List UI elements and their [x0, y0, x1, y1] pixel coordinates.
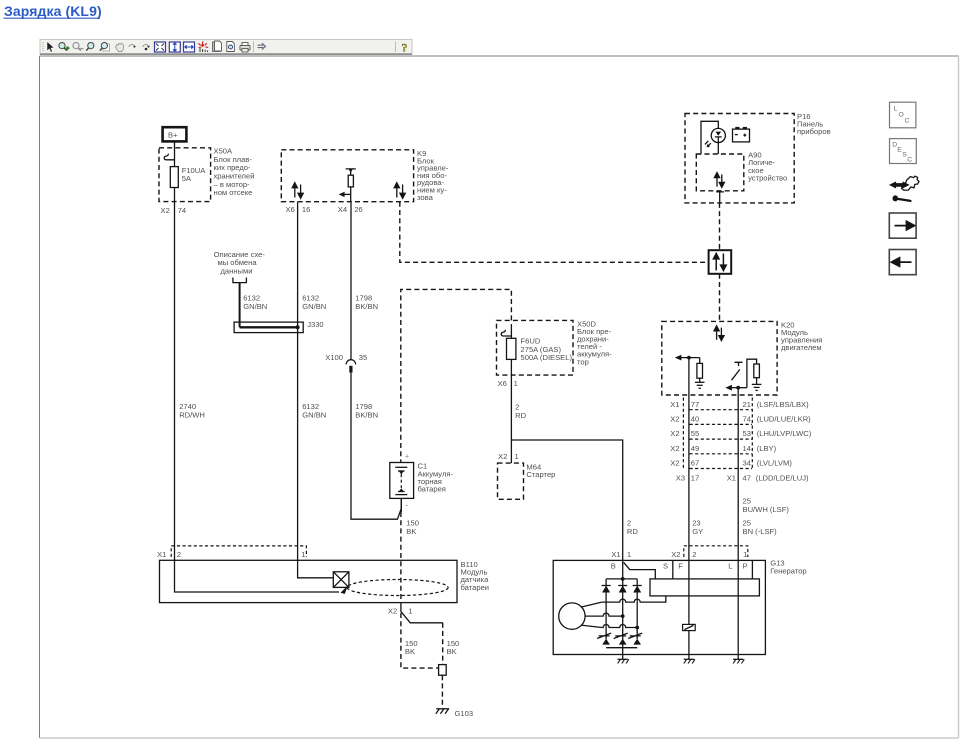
toolbar icon highlight sparkle: [198, 42, 208, 53]
svg-text:RD: RD: [515, 411, 526, 420]
stator circle: [559, 603, 585, 629]
svg-text:X1: X1: [611, 550, 620, 559]
arrows in A90: [714, 173, 724, 188]
svg-text:RD: RD: [627, 527, 638, 536]
node on top bus: [621, 577, 625, 581]
svg-text:(LUD/LUE/LKR): (LUD/LUE/LKR): [757, 415, 811, 424]
svg-text:F: F: [678, 562, 683, 571]
label 150 BK left: [405, 639, 418, 656]
dashed wire data box to K20: [719, 274, 721, 322]
svg-text:55: 55: [691, 429, 699, 438]
K20 pin labels left column: [670, 400, 736, 483]
svg-text:X1: X1: [670, 400, 679, 409]
svg-text:77: 77: [691, 400, 699, 409]
wire 150 BK right branch to inline connector: [401, 603, 443, 665]
svg-text:тор: тор: [577, 357, 589, 366]
K20 pin ladder dashed rows: [683, 398, 752, 469]
wire 150 BK left branch: [401, 613, 439, 668]
svg-text:X2: X2: [670, 459, 679, 468]
K20 pin labels right column: [743, 400, 812, 483]
connector X2 of generator dashed bracket: [684, 546, 748, 557]
shunt box with X: [333, 572, 349, 588]
svg-text:21: 21: [743, 400, 751, 409]
label K20: [781, 320, 822, 352]
B+ terminal box: [163, 127, 187, 141]
svg-text:GN/BN: GN/BN: [302, 410, 326, 419]
svg-text:1: 1: [743, 550, 747, 559]
battery icon in P16: [733, 127, 750, 142]
wire 6132 GN/BN from K9 to B110: [297, 202, 299, 561]
arrows in K20 top: [714, 326, 724, 341]
svg-text:500A (DIESEL): 500A (DIESEL): [521, 353, 573, 362]
wire bracket to splice J330: [239, 283, 241, 328]
svg-text:(LDD/LDE/LUJ): (LDD/LDE/LUJ): [756, 473, 809, 482]
label 25 BU/WH (LSF): [743, 497, 790, 514]
toolbar icon fit window: [155, 42, 166, 52]
svg-text:BK: BK: [406, 527, 416, 536]
svg-text:(LVL/LVM): (LVL/LVM): [757, 459, 793, 468]
svg-text:(LHU/LVP/LWC): (LHU/LVP/LWC): [757, 429, 812, 438]
wire K20 pin 21 to generator LP (25): [737, 388, 739, 561]
svg-text:X6: X6: [286, 205, 295, 214]
wire 2740 RD/WH: [174, 202, 176, 561]
toolbar icon fit width: [184, 42, 195, 52]
label 2740 RD/WH: [179, 402, 205, 419]
svg-text:X1: X1: [157, 550, 166, 559]
svg-text:2: 2: [177, 550, 181, 559]
svg-text:49: 49: [691, 444, 699, 453]
svg-text:GY: GY: [692, 527, 703, 536]
svg-text:16: 16: [302, 205, 310, 214]
toolbar icon zoom in: [59, 43, 70, 51]
svg-text:53: 53: [743, 429, 751, 438]
wire F through regulator to field coil: [688, 560, 690, 659]
title link Зарядка (KL9): [4, 3, 102, 19]
data bus description label: [214, 250, 266, 276]
bottom diode left: [602, 639, 610, 645]
svg-text:BU/WH (LSF): BU/WH (LSF): [743, 505, 790, 514]
pins X2 74 of X50A: [161, 206, 187, 215]
toolbar icon redo: [129, 44, 137, 48]
toolbar icon pan hand: [116, 43, 124, 51]
starter M64 dashed box: [498, 452, 556, 500]
svg-text:X2: X2: [670, 429, 679, 438]
label B110: [461, 560, 490, 592]
pin labels above generator: [611, 550, 747, 559]
ground G103: [436, 709, 473, 718]
svg-text:J330: J330: [307, 320, 323, 329]
label 23 GY: [692, 519, 703, 536]
svg-text:O: O: [899, 112, 904, 119]
label 150 BK below battery: [406, 519, 419, 536]
generator ground F: [684, 659, 695, 663]
svg-text:B: B: [611, 562, 616, 571]
svg-text:1: 1: [627, 550, 631, 559]
stator phase leads: [581, 602, 602, 627]
svg-text:батарея: батарея: [418, 485, 446, 494]
svg-text:BK/BN: BK/BN: [355, 410, 378, 419]
field coil: [683, 624, 696, 630]
dashed wire connector to G103: [441, 675, 443, 709]
battery C1: [390, 454, 414, 510]
resistor in K9: [346, 169, 356, 202]
svg-text:1: 1: [514, 379, 518, 388]
label X50D fuse block: [577, 319, 612, 366]
K20 left driver arrow: [675, 355, 700, 361]
connector X100 pin 35: [325, 353, 367, 373]
wire B down through generator: [622, 560, 624, 659]
battery sensor module B110 box: [160, 560, 458, 602]
next arrow box: [889, 213, 916, 238]
bottom diode right: [633, 639, 641, 645]
dashed wire K9 to serial data box: [400, 202, 709, 262]
label G13: [770, 559, 806, 576]
svg-text:-: -: [406, 501, 409, 510]
charge indicator lamp: [701, 121, 725, 154]
svg-text:5A: 5A: [182, 174, 192, 183]
label 25 BN (-LSF): [743, 519, 778, 536]
generator terminal labels B S F L P: [611, 562, 748, 571]
arrows in K9 left: [292, 183, 303, 199]
label P16: [797, 112, 831, 136]
svg-text:BN (-LSF): BN (-LSF): [743, 527, 778, 536]
labels 1798 BK/BN: [355, 294, 378, 420]
top diode middle: [618, 586, 627, 593]
label C1 battery: [418, 462, 454, 494]
svg-text:Генератор: Генератор: [770, 567, 806, 576]
svg-text:GN/BN: GN/BN: [243, 302, 267, 311]
svg-text:Стартер: Стартер: [526, 470, 555, 479]
toolbar icon zoom: [86, 43, 94, 51]
serial data double-arrow box: [709, 250, 732, 274]
svg-text:X2: X2: [161, 206, 170, 215]
svg-text:X2: X2: [388, 607, 397, 616]
svg-text:GN/BN: GN/BN: [302, 302, 326, 311]
phase line 1 to regulator: [602, 596, 666, 602]
svg-text:устройство: устройство: [748, 173, 787, 182]
logic device A90 dashed box: [696, 154, 744, 191]
svg-text:BK/BN: BK/BN: [355, 302, 378, 311]
wire B+ to X50A: [174, 142, 176, 149]
svg-text:47: 47: [743, 473, 751, 482]
label 2 RD at starter: [515, 403, 526, 420]
toolbar icon pointer: [47, 42, 54, 53]
svg-text:C: C: [907, 157, 912, 164]
arrow in K9 at pin 26: [339, 192, 351, 197]
fuse F10UA 5A: [170, 148, 206, 202]
svg-text:ном отсеке: ном отсеке: [214, 188, 253, 197]
svg-text:14: 14: [743, 444, 751, 453]
LOC box: [890, 102, 916, 128]
K20 right ground: [752, 384, 762, 390]
dashed wire 150 BK battery to B110: [400, 512, 402, 603]
toolbar icon fit height: [169, 42, 180, 52]
component location car icon: [890, 176, 919, 202]
toolbar icon forward: [258, 43, 266, 49]
svg-text:RD/WH: RD/WH: [179, 410, 205, 419]
arrows in K9 right: [394, 183, 405, 199]
bottom diode middle: [619, 639, 627, 645]
svg-text:74: 74: [743, 415, 751, 424]
svg-text:17: 17: [691, 473, 699, 482]
K20 left resistor: [697, 358, 703, 383]
labels 6132 GN/BN: [302, 294, 326, 420]
off-page bracket: [233, 278, 247, 283]
fuse F6UD: [507, 324, 573, 375]
svg-text:74: 74: [178, 206, 186, 215]
dashed wire X50D to battery positive: [401, 289, 512, 462]
svg-text:(LSF/LBS/LBX): (LSF/LBS/LBX): [757, 400, 809, 409]
DESC box: [890, 139, 917, 164]
top diode left: [602, 579, 611, 639]
back arrow box: [889, 250, 916, 275]
pin X2 1 of B110: [388, 607, 413, 616]
internal wiring B110: [175, 560, 349, 594]
K20 right resistor: [754, 364, 760, 384]
pin labels X1 2 1 of B110: [157, 550, 306, 559]
svg-text:C: C: [905, 118, 910, 125]
toolbar icon copy page: [213, 41, 222, 52]
wire LP through regulator: [737, 560, 739, 659]
svg-text:батареи: батареи: [461, 583, 490, 592]
svg-text:B+: B+: [168, 131, 178, 140]
fuse block X50D dashed box: [497, 320, 574, 375]
labels 6132 GN/BN left of splice: [243, 294, 267, 311]
generator ground B: [618, 659, 629, 663]
svg-text:X2: X2: [671, 550, 680, 559]
svg-text:L: L: [894, 106, 898, 113]
svg-text:+: +: [405, 454, 409, 461]
connector X1 of B110 dashed bracket: [171, 546, 306, 557]
svg-text:40: 40: [691, 415, 699, 424]
toolbar icon print: [240, 43, 250, 53]
wire K20 pin 77 to generator F (23 GY): [688, 358, 690, 561]
svg-text:35: 35: [359, 353, 367, 362]
toolbar icon zoom out: [73, 43, 84, 51]
generator G13 box: [553, 560, 765, 654]
svg-text:1: 1: [408, 607, 412, 616]
svg-text:Зарядка (KL9): Зарядка (KL9): [4, 3, 102, 19]
regulator block: [650, 579, 759, 596]
instrument panel P16 dashed box: [685, 114, 794, 203]
svg-text:зова: зова: [417, 193, 434, 202]
engine control module K20 dashed box: [662, 321, 777, 395]
svg-text:34: 34: [743, 459, 751, 468]
svg-text:X6: X6: [498, 379, 507, 388]
node junction on pin 77 wire: [687, 356, 691, 360]
wire 1798 BK/BN from K9: [351, 202, 401, 519]
svg-text:X4: X4: [338, 205, 347, 214]
svg-text:X2: X2: [498, 452, 507, 461]
diode bridge top bus: [606, 578, 637, 580]
svg-text:X2: X2: [670, 444, 679, 453]
label A90: [748, 151, 787, 183]
generator terminal separators: [673, 560, 753, 579]
wire battery negative stub: [400, 498, 402, 512]
wire A90 to P16 edge: [716, 192, 724, 203]
label 2 RD at generator: [627, 519, 638, 536]
dashed wire P16 to data box: [719, 203, 721, 250]
phase line 3: [602, 625, 637, 628]
svg-text:G103: G103: [455, 709, 474, 718]
diode bridge bottom bus: [606, 647, 637, 649]
label 150 BK right: [447, 639, 460, 656]
inline connector to ground: [439, 665, 447, 676]
pins X6 1 of X50D: [498, 379, 518, 388]
fuse block X50A dashed box: [159, 148, 211, 202]
K20 left ground: [695, 382, 705, 388]
svg-text:1: 1: [515, 452, 519, 461]
svg-text:двигателем: двигателем: [781, 343, 822, 352]
toolbar icon zoom page: [100, 43, 110, 52]
label X50A fuse block: [214, 147, 255, 198]
svg-text:X1: X1: [727, 473, 736, 482]
K20 right switch driver: [725, 359, 756, 390]
wire B to regulator: [624, 562, 656, 579]
top diode right: [633, 579, 642, 639]
current sensor ellipse: [347, 580, 448, 596]
AC marks: [597, 633, 642, 638]
svg-text:?: ?: [402, 41, 408, 55]
toolbar icon rotate: [143, 44, 151, 50]
toolbar icon preview: [227, 42, 235, 52]
svg-text:P: P: [743, 562, 748, 571]
label K9 body control module: [417, 149, 449, 202]
splice J330: [234, 320, 324, 332]
svg-text:S: S: [663, 562, 668, 571]
svg-text:данными: данными: [221, 266, 253, 275]
svg-text:(LBY): (LBY): [757, 444, 777, 453]
svg-text:2: 2: [692, 550, 696, 559]
svg-text:X2: X2: [670, 415, 679, 424]
wire X50D to starter and generator 2 RD: [511, 375, 622, 560]
svg-text:BK: BK: [447, 647, 457, 656]
toolbar: [40, 40, 412, 55]
svg-text:67: 67: [691, 459, 699, 468]
svg-text:L: L: [728, 562, 732, 571]
svg-text:X100: X100: [325, 353, 343, 362]
pins X6 16 X4 26 of K9: [286, 205, 363, 214]
body control module K9 dashed box: [281, 150, 413, 202]
svg-text:X3: X3: [676, 473, 685, 482]
svg-text:1: 1: [301, 550, 305, 559]
phase line 2: [602, 613, 623, 616]
generator ground P: [733, 659, 744, 663]
svg-text:26: 26: [354, 205, 362, 214]
fuse clip X50A: [164, 154, 174, 160]
svg-text:BK: BK: [405, 647, 415, 656]
svg-text:приборов: приборов: [797, 127, 831, 136]
fuse clip X50D: [501, 330, 511, 336]
